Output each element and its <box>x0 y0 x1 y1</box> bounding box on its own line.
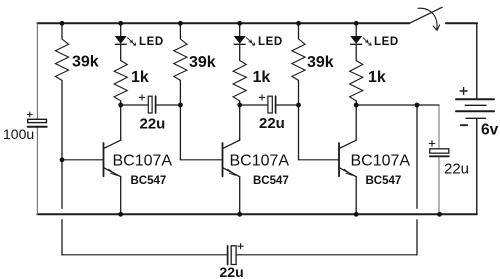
svg-text:LED: LED <box>139 36 164 48</box>
svg-text:LED: LED <box>374 36 399 48</box>
svg-text:22u: 22u <box>259 115 285 132</box>
svg-text:22u: 22u <box>444 161 469 178</box>
svg-text:1k: 1k <box>368 69 386 86</box>
svg-text:1k: 1k <box>253 69 271 86</box>
svg-text:BC107A: BC107A <box>230 153 290 170</box>
svg-text:BC107A: BC107A <box>351 153 411 170</box>
svg-text:22u: 22u <box>140 116 166 133</box>
svg-text:39k: 39k <box>72 54 99 71</box>
svg-text:22u: 22u <box>220 264 244 279</box>
svg-text:BC107A: BC107A <box>113 153 173 170</box>
svg-text:LED: LED <box>258 36 283 48</box>
svg-text:BC547: BC547 <box>253 175 289 187</box>
svg-text:39k: 39k <box>189 54 216 71</box>
svg-text:6v: 6v <box>481 122 499 139</box>
svg-text:BC547: BC547 <box>366 175 402 187</box>
svg-text:BC547: BC547 <box>131 175 167 187</box>
svg-text:1k: 1k <box>131 69 149 86</box>
svg-text:100u: 100u <box>3 126 34 142</box>
svg-text:39k: 39k <box>307 54 334 71</box>
